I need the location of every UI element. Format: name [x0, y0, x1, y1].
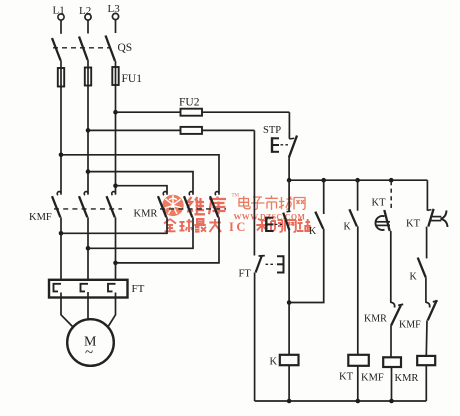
terminal L2: [79, 5, 91, 20]
terminal L1: [53, 5, 65, 21]
wire left control rail lower: [254, 273, 256, 402]
svg-text:FU2: FU2: [179, 97, 200, 109]
node bus B2: [321, 178, 326, 183]
time contact KT (B4): [372, 181, 392, 231]
watermark: [162, 194, 310, 235]
svg-text:KT: KT: [406, 219, 421, 230]
wire B2 lower: [289, 229, 324, 303]
svg-text:STP: STP: [263, 125, 281, 136]
time contact KT (B5): [406, 209, 448, 230]
node KMF out L2: [86, 246, 91, 251]
wire B5 lower: [425, 320, 428, 356]
node KMF out L3: [113, 261, 118, 266]
wire B4 middle: [390, 231, 392, 303]
contactor KMR main contacts: [134, 192, 227, 220]
wire L2 QS to FU1: [87, 60, 89, 68]
svg-text:L3: L3: [108, 3, 121, 15]
coil KMR: [395, 356, 436, 384]
wire KT coil to bus: [357, 366, 359, 401]
node KMF out L1: [59, 231, 64, 236]
wire L1 cross to KMR right: [61, 155, 219, 195]
node bus B3: [355, 178, 360, 183]
wire B1 middle: [288, 230, 290, 355]
fuse FU2: [88, 97, 289, 134]
svg-text:~: ~: [85, 345, 93, 361]
wire bottom bus: [255, 400, 427, 402]
svg-text:KMR: KMR: [364, 314, 387, 325]
wire KMF outputs: [60, 217, 62, 280]
svg-text:KMR: KMR: [395, 373, 419, 384]
contact K seal-in (B2): [309, 180, 324, 237]
svg-text:KMF: KMF: [361, 373, 384, 384]
wire STP to bus: [288, 158, 290, 181]
svg-text:FT: FT: [132, 283, 145, 295]
wire L2 vertical: [87, 86, 89, 195]
svg-text:KT: KT: [339, 372, 354, 383]
svg-text:KMR: KMR: [134, 209, 158, 220]
node bus KMF: [389, 399, 394, 404]
terminal L3: [108, 3, 121, 20]
wire L1 vertical: [60, 87, 62, 195]
node bus B4: [389, 178, 394, 183]
svg-text:TM: TM: [232, 194, 240, 199]
node B1-B2 join: [287, 300, 292, 305]
wires FT to motor: [61, 293, 73, 327]
wire L3 top: [115, 20, 117, 33]
node L2-FU2 tap: [86, 128, 91, 133]
wire FU2 to STP: [288, 112, 290, 139]
svg-text:L1: L1: [53, 5, 65, 17]
node L1 cross tap: [59, 153, 64, 158]
thermal relay FT heaters: [49, 280, 145, 298]
svg-text:FU1: FU1: [122, 73, 143, 85]
wire L3 cross to KMR left: [116, 186, 168, 195]
node L2 cross tap: [86, 169, 91, 174]
svg-text:IC: IC: [229, 220, 248, 234]
node bus KT: [356, 399, 361, 404]
coil K: [270, 355, 299, 368]
svg-text:FT: FT: [239, 269, 252, 280]
wire KMR left output to L1: [61, 217, 167, 233]
knife switch QS: [52, 36, 132, 62]
wire left control rail upper: [253, 130, 255, 255]
node L3-FU2 tap: [113, 110, 118, 115]
coil KMF: [361, 357, 401, 383]
thermal contact FT (control): [239, 256, 284, 280]
wire L2 cross to KMR middle: [88, 172, 193, 195]
svg-text:K: K: [270, 357, 278, 368]
wire B5 middle2: [425, 277, 427, 303]
wire B4 lower: [390, 326, 392, 358]
wire L1 QS to FU1: [60, 61, 62, 69]
wire L2 top: [87, 20, 89, 33]
svg-text:K: K: [309, 226, 317, 237]
svg-text:L2: L2: [79, 5, 91, 17]
wire top bus: [289, 179, 427, 181]
wire L3 vertical: [115, 85, 117, 195]
push button SB start: [266, 180, 291, 232]
contact K (B3): [344, 180, 358, 232]
push button STP: [263, 125, 297, 158]
svg-text:KT: KT: [372, 198, 387, 209]
wire B5 middle1: [426, 227, 428, 259]
node bus B1: [287, 178, 292, 183]
wire B3 lower: [357, 226, 359, 354]
interlock contact KMF (NC): [399, 300, 438, 330]
svg-text:KMF: KMF: [399, 320, 421, 331]
fuse FU1: [58, 67, 142, 87]
motor M: [67, 319, 114, 366]
contactor KMF main contacts: [29, 192, 122, 223]
wire L1 top: [60, 20, 62, 34]
wire KMR coil to bus: [425, 365, 427, 401]
wire K coil to bus: [288, 365, 290, 401]
wire B5 top: [426, 180, 428, 211]
coil KT: [339, 355, 369, 383]
node L3 cross tap: [113, 183, 118, 188]
contact K (B5): [410, 258, 426, 283]
wire KMR right output to L3: [116, 217, 220, 263]
node bus K: [287, 399, 292, 404]
wire KMF coil to bus: [391, 367, 393, 401]
svg-text:K: K: [344, 222, 352, 233]
svg-text:QS: QS: [118, 42, 133, 54]
wire L3 QS to FU1: [115, 61, 117, 67]
interlock contact KMR (NC): [364, 302, 403, 326]
svg-text:K: K: [410, 272, 418, 283]
svg-text:KMF: KMF: [29, 212, 52, 223]
wire KMR middle output to L2: [88, 217, 193, 248]
